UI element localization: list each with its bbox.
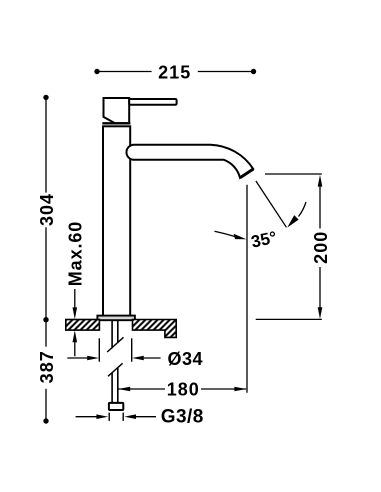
water flow direction line 35deg (256, 181, 287, 227)
supply pipe upper right (117, 320, 119, 343)
svg-text:387: 387 (37, 350, 57, 383)
dimension 200 up arrowhead (318, 175, 323, 187)
35deg right-pointing arrowhead (234, 234, 247, 240)
left dimension line segment A (45, 97, 47, 192)
dimension 180 right arrowhead (234, 387, 246, 392)
G3/8 left-pointing arrowhead (124, 414, 136, 419)
G3/8 left arrow tail (76, 416, 97, 418)
faucet spout (126, 145, 253, 178)
pipe break slash 1 (107, 337, 123, 352)
O34 right-pointing arrowhead (87, 356, 99, 361)
dimension 200 line upper (319, 186, 321, 229)
Max.60 upper arrow line (74, 289, 76, 308)
svg-text:200: 200 (311, 231, 331, 264)
dimension 180 left arrowhead (118, 387, 130, 392)
Max.60 down arrowhead (73, 307, 78, 319)
O34 left-pointing arrowhead (132, 356, 144, 361)
faucet body (103, 126, 130, 316)
spout mouth edge (240, 169, 253, 178)
supply pipe lower right (117, 368, 119, 403)
connector nut (109, 403, 123, 410)
supply pipe upper left (111, 320, 113, 348)
Max.60 lower arrow tail (74, 342, 76, 356)
O34 right arrow tail (144, 357, 161, 359)
supply pipe lower left (111, 373, 113, 403)
dimension 215 dot left (94, 69, 99, 74)
left dimension dot bottom (43, 418, 48, 423)
left dimension line segment C (45, 389, 47, 421)
O34 extension line right (131, 338, 133, 361)
Max.60 up arrowhead (73, 330, 78, 342)
svg-text:Max.60: Max.60 (66, 221, 86, 286)
deck level extension line (256, 318, 322, 320)
dimension 215 line right segment (198, 71, 254, 73)
G3/8 right-pointing arrowhead (96, 414, 108, 419)
spout tip extension line (265, 173, 322, 175)
left dimension dot middle (43, 317, 48, 322)
35deg left arc arrow tail (215, 231, 236, 236)
dimension 215 dot right (251, 69, 256, 74)
35deg curved arrow tail (299, 202, 307, 217)
dimension 180 line left (118, 388, 165, 390)
left dimension line segment B (45, 227, 47, 346)
G3/8 extension tick left (108, 413, 110, 421)
left dimension dot top (43, 95, 48, 100)
vertical reference line below spout (246, 185, 248, 393)
countertop right section (133, 320, 177, 338)
base flange (97, 316, 134, 321)
O34 extension line left (98, 338, 100, 361)
svg-text:Ø34: Ø34 (168, 349, 204, 369)
dimension 200 line lower (319, 267, 321, 308)
svg-text:G3/8: G3/8 (161, 407, 204, 428)
dimension 200 down arrowhead (318, 307, 323, 319)
G3/8 right arrow tail (136, 416, 156, 418)
G3/8 extension tick right (122, 413, 124, 421)
pipe break slash 2 (108, 363, 123, 376)
35deg down-left arrowhead (287, 215, 298, 228)
faucet cartridge head (104, 98, 130, 123)
O34 left arrow tail (67, 357, 88, 359)
countertop left section (66, 320, 100, 331)
dimension 215 line left segment (97, 71, 152, 73)
svg-text:304: 304 (37, 193, 57, 226)
svg-text:215: 215 (158, 62, 191, 82)
dimension 180 line right (201, 388, 246, 390)
faucet handle lever (129, 99, 176, 105)
faucet head bottom edge (102, 122, 130, 124)
svg-text:180: 180 (167, 380, 200, 400)
